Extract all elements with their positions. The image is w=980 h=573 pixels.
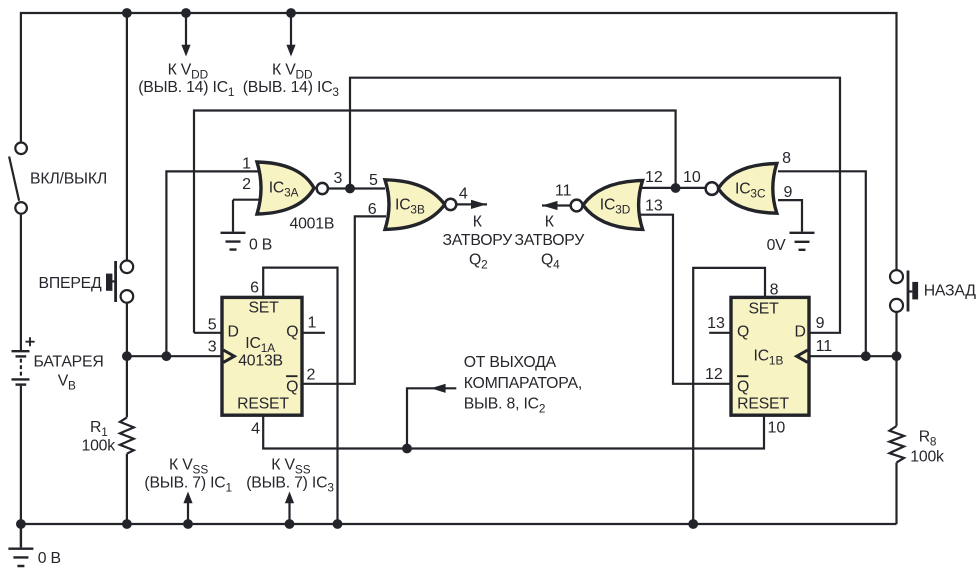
svg-text:11: 11 (816, 338, 833, 355)
svg-text:9: 9 (784, 184, 793, 201)
svg-text:ВЫВ. 8, IC2: ВЫВ. 8, IC2 (464, 396, 546, 416)
svg-text:ОТ ВЫХОДА: ОТ ВЫХОДА (464, 354, 557, 371)
svg-text:4: 4 (459, 186, 468, 203)
svg-text:2: 2 (307, 367, 316, 384)
svg-text:SET: SET (748, 301, 779, 318)
svg-text:К: К (545, 214, 555, 231)
svg-text:К VSS: К VSS (169, 457, 208, 477)
svg-text:(ВЫВ. 7) IC1: (ВЫВ. 7) IC1 (144, 475, 232, 495)
svg-text:ВКЛ/ВЫКЛ: ВКЛ/ВЫКЛ (30, 171, 107, 188)
svg-text:0V: 0V (767, 237, 787, 254)
svg-text:Q: Q (286, 324, 298, 341)
svg-text:3: 3 (208, 339, 217, 356)
svg-text:4001B: 4001B (290, 215, 335, 232)
svg-text:5: 5 (208, 317, 217, 334)
svg-text:3: 3 (334, 170, 343, 187)
svg-text:4013B: 4013B (238, 353, 283, 370)
svg-text:Q: Q (737, 378, 749, 395)
svg-text:ЗАТВОРУ: ЗАТВОРУ (514, 232, 585, 249)
svg-text:10: 10 (768, 419, 786, 436)
svg-text:100k: 100k (910, 448, 944, 465)
svg-text:1: 1 (308, 314, 317, 331)
svg-text:Q: Q (737, 324, 749, 341)
svg-text:К VSS: К VSS (271, 457, 310, 477)
svg-text:0 В: 0 В (249, 237, 272, 254)
svg-text:1: 1 (242, 155, 251, 172)
svg-text:12: 12 (705, 366, 723, 383)
svg-text:100k: 100k (82, 438, 116, 455)
svg-text:VB: VB (58, 373, 76, 393)
svg-text:(ВЫВ. 14) IC1: (ВЫВ. 14) IC1 (138, 79, 234, 99)
svg-text:D: D (228, 324, 239, 341)
svg-text:6: 6 (368, 201, 377, 218)
svg-text:(ВЫВ. 14) IC3: (ВЫВ. 14) IC3 (243, 79, 340, 99)
svg-text:4: 4 (251, 421, 260, 438)
svg-text:БАТАРЕЯ: БАТАРЕЯ (34, 354, 104, 371)
svg-text:9: 9 (816, 315, 825, 332)
svg-text:13: 13 (707, 315, 725, 332)
svg-text:0 В: 0 В (38, 550, 61, 567)
svg-text:НАЗАД: НАЗАД (924, 283, 977, 300)
svg-text:2: 2 (242, 176, 251, 193)
svg-text:12: 12 (645, 169, 663, 186)
svg-text:6: 6 (250, 280, 259, 297)
svg-text:Q2: Q2 (469, 252, 488, 272)
svg-text:ВПЕРЕД: ВПЕРЕД (39, 275, 102, 292)
svg-text:К: К (473, 214, 483, 231)
svg-text:ЗАТВОРУ: ЗАТВОРУ (442, 232, 513, 249)
svg-text:R8: R8 (919, 429, 937, 449)
svg-text:8: 8 (782, 150, 791, 167)
svg-text:Q4: Q4 (541, 252, 560, 272)
svg-text:R1: R1 (90, 419, 108, 439)
svg-text:КОМПАРАТОРА,: КОМПАРАТОРА, (464, 375, 582, 392)
svg-text:10: 10 (683, 169, 701, 186)
svg-text:RESET: RESET (737, 396, 789, 413)
svg-text:11: 11 (555, 183, 572, 200)
svg-text:D: D (795, 324, 806, 341)
svg-text:SET: SET (248, 300, 279, 317)
svg-text:5: 5 (369, 172, 378, 189)
svg-text:8: 8 (770, 281, 779, 298)
svg-text:RESET: RESET (237, 396, 289, 413)
svg-text:(ВЫВ. 7) IC3: (ВЫВ. 7) IC3 (246, 475, 334, 495)
svg-text:Q: Q (286, 378, 298, 395)
svg-text:13: 13 (645, 197, 663, 214)
